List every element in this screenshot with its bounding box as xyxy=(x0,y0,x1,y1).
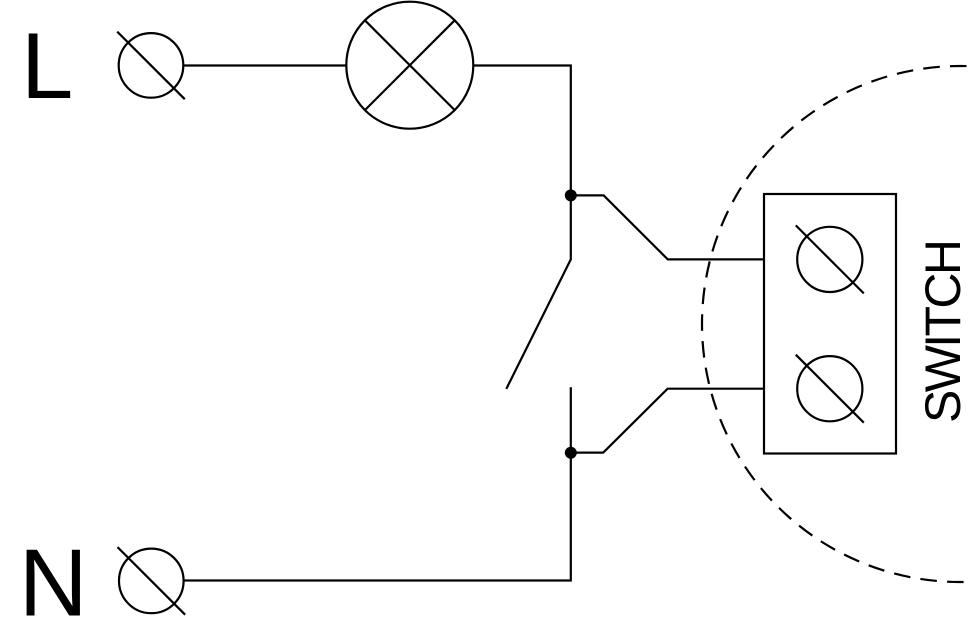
svg-text:N: N xyxy=(19,530,88,636)
svg-text:L: L xyxy=(21,13,73,118)
svg-text:SWITCH: SWITCH xyxy=(915,239,970,423)
